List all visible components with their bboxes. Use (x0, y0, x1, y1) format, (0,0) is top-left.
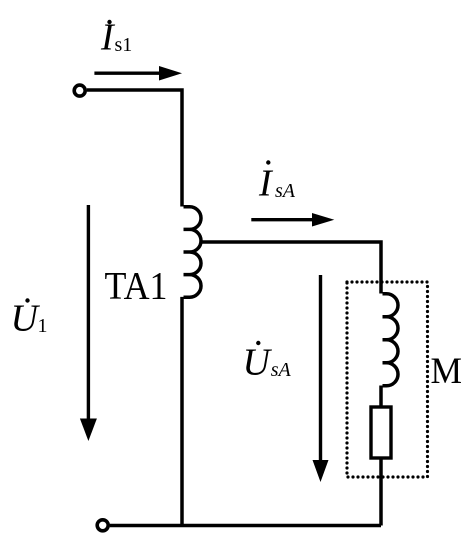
svg-text:U: U (11, 298, 41, 340)
svg-text:TA1: TA1 (105, 265, 168, 308)
svg-text:M: M (431, 351, 463, 392)
svg-text:sA: sA (271, 359, 292, 381)
svg-text:I: I (258, 163, 274, 205)
svg-text:1: 1 (38, 315, 48, 337)
svg-text:U: U (243, 341, 273, 383)
svg-text:sA: sA (275, 180, 296, 202)
svg-text:s1: s1 (115, 34, 133, 56)
